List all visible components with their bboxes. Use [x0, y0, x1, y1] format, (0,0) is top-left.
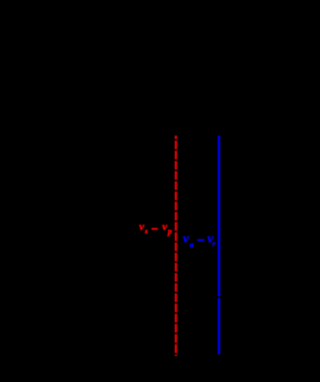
svg-text:p: p	[167, 227, 172, 236]
svg-text:s: s	[144, 228, 148, 236]
blue solid vertical line lower segment	[218, 298, 220, 354]
svg-text:r: r	[212, 239, 215, 248]
svg-text:ν: ν	[139, 221, 144, 233]
svg-text:ν: ν	[183, 230, 189, 245]
svg-text:−: −	[151, 223, 158, 235]
svg-text:a: a	[190, 240, 194, 249]
svg-text:−: −	[197, 233, 205, 248]
blue solid vertical line upper segment (transition nu_a - nu_r)	[218, 136, 220, 297]
red dashed vertical line (transition nu_s - nu_p)	[175, 136, 177, 356]
svg-text:ν: ν	[162, 221, 167, 233]
